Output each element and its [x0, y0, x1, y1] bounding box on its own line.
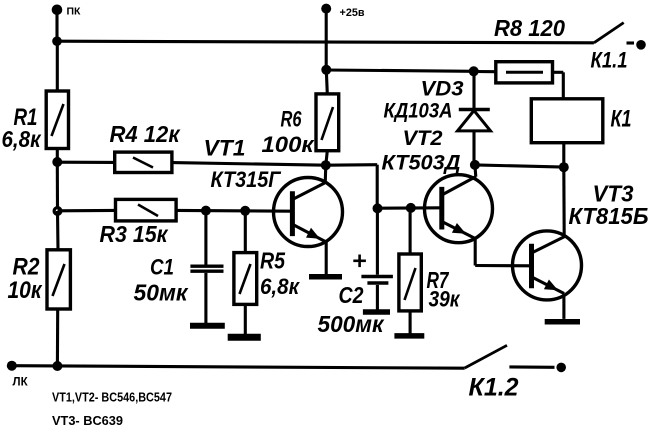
switch K1.1: [591, 23, 646, 73]
svg-text:R5: R5: [260, 248, 286, 274]
wire VT1 emitter down: [325, 242, 328, 274]
node top-left junction: [52, 36, 62, 46]
wire R8 to K1: [553, 72, 564, 99]
wire PK down to top bus: [55, 11, 58, 42]
svg-text:6,8к: 6,8к: [260, 274, 301, 299]
svg-text:С2: С2: [339, 282, 364, 308]
wire node to R4: [57, 161, 114, 164]
wire K1 node to VD3 anode: [475, 165, 564, 167]
node R2 bottom junction: [52, 361, 62, 371]
wire R2 top lead: [56, 211, 60, 250]
terminal LK (ЛК): [7, 361, 29, 389]
resistor R3: [100, 199, 177, 247]
node R1-R4 junction: [52, 157, 62, 167]
diode VD3: [384, 72, 491, 165]
svg-text:С1: С1: [150, 255, 174, 280]
svg-text:500мк: 500мк: [318, 311, 385, 337]
node C2 junction: [373, 203, 383, 213]
wire VT2 collector up: [473, 165, 477, 177]
wire VT3 emitter down: [562, 294, 565, 319]
svg-text:R6: R6: [281, 107, 303, 132]
node C1 junction: [201, 206, 211, 216]
svg-text:К1.2: К1.2: [469, 374, 519, 402]
svg-text:50мк: 50мк: [134, 280, 189, 306]
resistor R2: [8, 250, 71, 309]
node VD3 anode junction: [470, 160, 480, 170]
svg-text:10к: 10к: [8, 277, 44, 304]
wire C2 node to VT2 base: [378, 206, 442, 209]
svg-text:100к: 100к: [262, 132, 316, 157]
svg-text:VT1,VT2- BC546,BC547: VT1,VT2- BC546,BC547: [52, 391, 172, 405]
ground VT3: [545, 319, 580, 325]
wire R2 bottom lead: [56, 309, 59, 366]
svg-text:ЛК: ЛК: [13, 377, 29, 389]
ground VT1 emitter: [309, 274, 342, 280]
wire VT1 collector up: [324, 165, 328, 183]
svg-text:К1.1: К1.1: [591, 48, 628, 73]
svg-text:+25в: +25в: [340, 7, 365, 19]
switch K1.2: [465, 345, 566, 401]
svg-text:R8 120: R8 120: [494, 15, 565, 41]
wire top bus to K1.1: [57, 41, 594, 43]
svg-text:VT2: VT2: [403, 127, 443, 150]
resistor R4: [110, 121, 181, 173]
svg-text:R3 15к: R3 15к: [100, 221, 169, 247]
resistor R5: [234, 211, 301, 334]
node K1 bottom junction: [559, 162, 569, 172]
resistor R7: [399, 208, 461, 334]
svg-text:К1: К1: [611, 106, 632, 133]
svg-text:R4 12к: R4 12к: [110, 121, 181, 147]
svg-text:ПК: ПК: [67, 6, 82, 18]
svg-text:КТ503Д: КТ503Д: [382, 152, 461, 175]
transistor VT3: [513, 181, 649, 300]
wire collector node to C2 node: [326, 165, 377, 209]
wire +25 bus to VD3: [326, 70, 473, 71]
wire K1 bottom lead: [562, 143, 565, 168]
wire VT2 emitter to VT3 base: [475, 239, 531, 266]
wire +25v down: [325, 9, 328, 70]
svg-text:КД103А: КД103А: [384, 100, 453, 123]
resistor R6: [262, 70, 339, 165]
wire bottom bus: [12, 366, 465, 369]
svg-text:VD3: VD3: [421, 78, 464, 101]
wire divider vertical: [56, 162, 59, 211]
svg-text:VT1: VT1: [204, 136, 246, 161]
wire R1 bottom lead: [56, 149, 59, 163]
svg-text:6,8к: 6,8к: [2, 126, 42, 152]
wire R3 to VT1 base: [176, 209, 292, 213]
svg-text:VT3- BC639: VT3- BC639: [52, 414, 123, 428]
node R3 junction: [53, 206, 63, 216]
ground R5: [228, 334, 261, 341]
svg-text:КТ815Б: КТ815Б: [569, 203, 649, 229]
ground C1: [190, 323, 225, 329]
node R6 top junction: [321, 65, 331, 75]
ground R7: [394, 333, 424, 339]
resistor R1: [2, 91, 69, 152]
wire R1 top lead: [56, 41, 59, 91]
transistor VT2: [382, 127, 493, 243]
node R5 junction: [240, 206, 250, 216]
node VD3 top junction: [469, 66, 479, 76]
terminal PK (ПК): [52, 5, 81, 18]
svg-text:39к: 39к: [429, 287, 462, 312]
capacitor C1: [134, 211, 224, 324]
capacitor C2: [318, 208, 393, 337]
wire VD3 node to R8: [474, 70, 496, 73]
relay K1: [531, 99, 631, 143]
resistor R8: [494, 15, 565, 83]
svg-text:КТ315Г: КТ315Г: [211, 167, 282, 192]
wire VT3 collector up to K1 node: [562, 167, 566, 236]
wire R4 to VT1 collector node: [172, 163, 326, 166]
ground C2: [363, 309, 390, 315]
node VT1 collector junction: [321, 160, 331, 170]
node R7 junction: [406, 203, 416, 213]
transistor VT1: [204, 136, 343, 247]
wire node to R3: [58, 209, 116, 213]
terminal +25v: [321, 4, 365, 19]
